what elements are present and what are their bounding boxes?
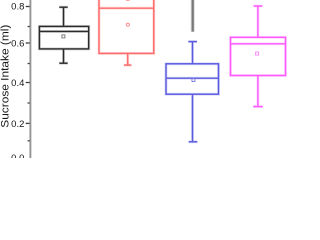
blue series core bbox=[166, 42, 219, 142]
major tick 0.6 bbox=[26, 42, 30, 44]
svg-text:0.8: 0.8 bbox=[11, 1, 24, 12]
svg-text:0.4: 0.4 bbox=[11, 78, 24, 89]
major tick 0.2 bbox=[26, 122, 30, 124]
minor tick 0.3 bbox=[28, 102, 30, 104]
svg-text:0.0: 0.0 bbox=[11, 153, 24, 158]
gray partial line above blue box (halo) bbox=[191, 0, 195, 32]
magenta series core bbox=[231, 6, 286, 107]
black series halo bbox=[39, 7, 88, 63]
major tick 0.4 bbox=[26, 82, 30, 84]
magenta series halo bbox=[231, 6, 286, 107]
svg-text:0.6: 0.6 bbox=[11, 38, 24, 49]
blue series halo bbox=[166, 42, 219, 142]
minor tick 0.7 bbox=[28, 26, 30, 28]
blue mean marker square bbox=[192, 79, 195, 82]
black series core bbox=[39, 7, 88, 63]
svg-text:Sucrose Intake (ml): Sucrose Intake (ml) bbox=[0, 24, 11, 127]
red mean marker circle bbox=[126, 23, 129, 26]
major tick 0.8 bbox=[26, 6, 30, 8]
red series core bbox=[99, 0, 154, 65]
svg-text:0.2: 0.2 bbox=[11, 119, 24, 130]
magenta mean marker square bbox=[256, 52, 259, 55]
minor tick 0.1 bbox=[28, 140, 30, 142]
red partial marker at top edge bbox=[126, 0, 130, 1]
minor tick 0.5 bbox=[28, 63, 30, 65]
y-axis line bbox=[29, 0, 31, 158]
black mean marker square bbox=[62, 35, 65, 38]
red series halo bbox=[99, 0, 154, 65]
gray partial line above blue box (core) bbox=[192, 0, 194, 32]
